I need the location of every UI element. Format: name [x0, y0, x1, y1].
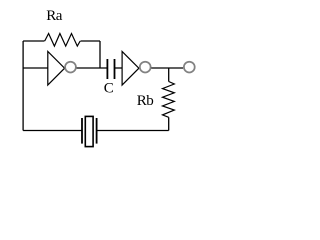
crystal X1 body rect: [85, 116, 93, 146]
inverter U1 output bubble: [65, 62, 76, 73]
crystal X1 left plate: [81, 118, 83, 144]
wire junction down to Rb: [168, 68, 170, 82]
wire bubble2 to output terminal: [151, 67, 183, 69]
crystal X1 right plate: [96, 118, 98, 144]
wire top-right segment: [81, 40, 101, 42]
resistor Rb: [163, 82, 175, 118]
wire left vertical: [22, 41, 24, 131]
wire right-top vertical (feedback to C): [99, 41, 101, 68]
wire bottom-right segment: [97, 130, 169, 132]
svg-text:C: C: [104, 80, 114, 96]
wire bubble1 to C: [77, 67, 108, 69]
inverter U2 triangle: [122, 52, 139, 86]
capacitor C plate 2: [114, 59, 116, 79]
wire bottom-left segment: [23, 130, 82, 132]
wire C to inverter U2: [115, 67, 123, 69]
output terminal circle: [184, 62, 195, 73]
svg-text:Rb: Rb: [137, 93, 154, 109]
wire inverter U1 input: [23, 67, 48, 69]
capacitor C plate 1: [106, 59, 108, 79]
inverter U1 triangle: [48, 52, 65, 86]
resistor Ra: [45, 34, 80, 47]
inverter U2 output bubble: [140, 62, 151, 73]
wire top-left segment: [23, 40, 44, 42]
wire Rb bottom stub: [168, 117, 170, 130]
svg-text:Ra: Ra: [46, 8, 63, 24]
